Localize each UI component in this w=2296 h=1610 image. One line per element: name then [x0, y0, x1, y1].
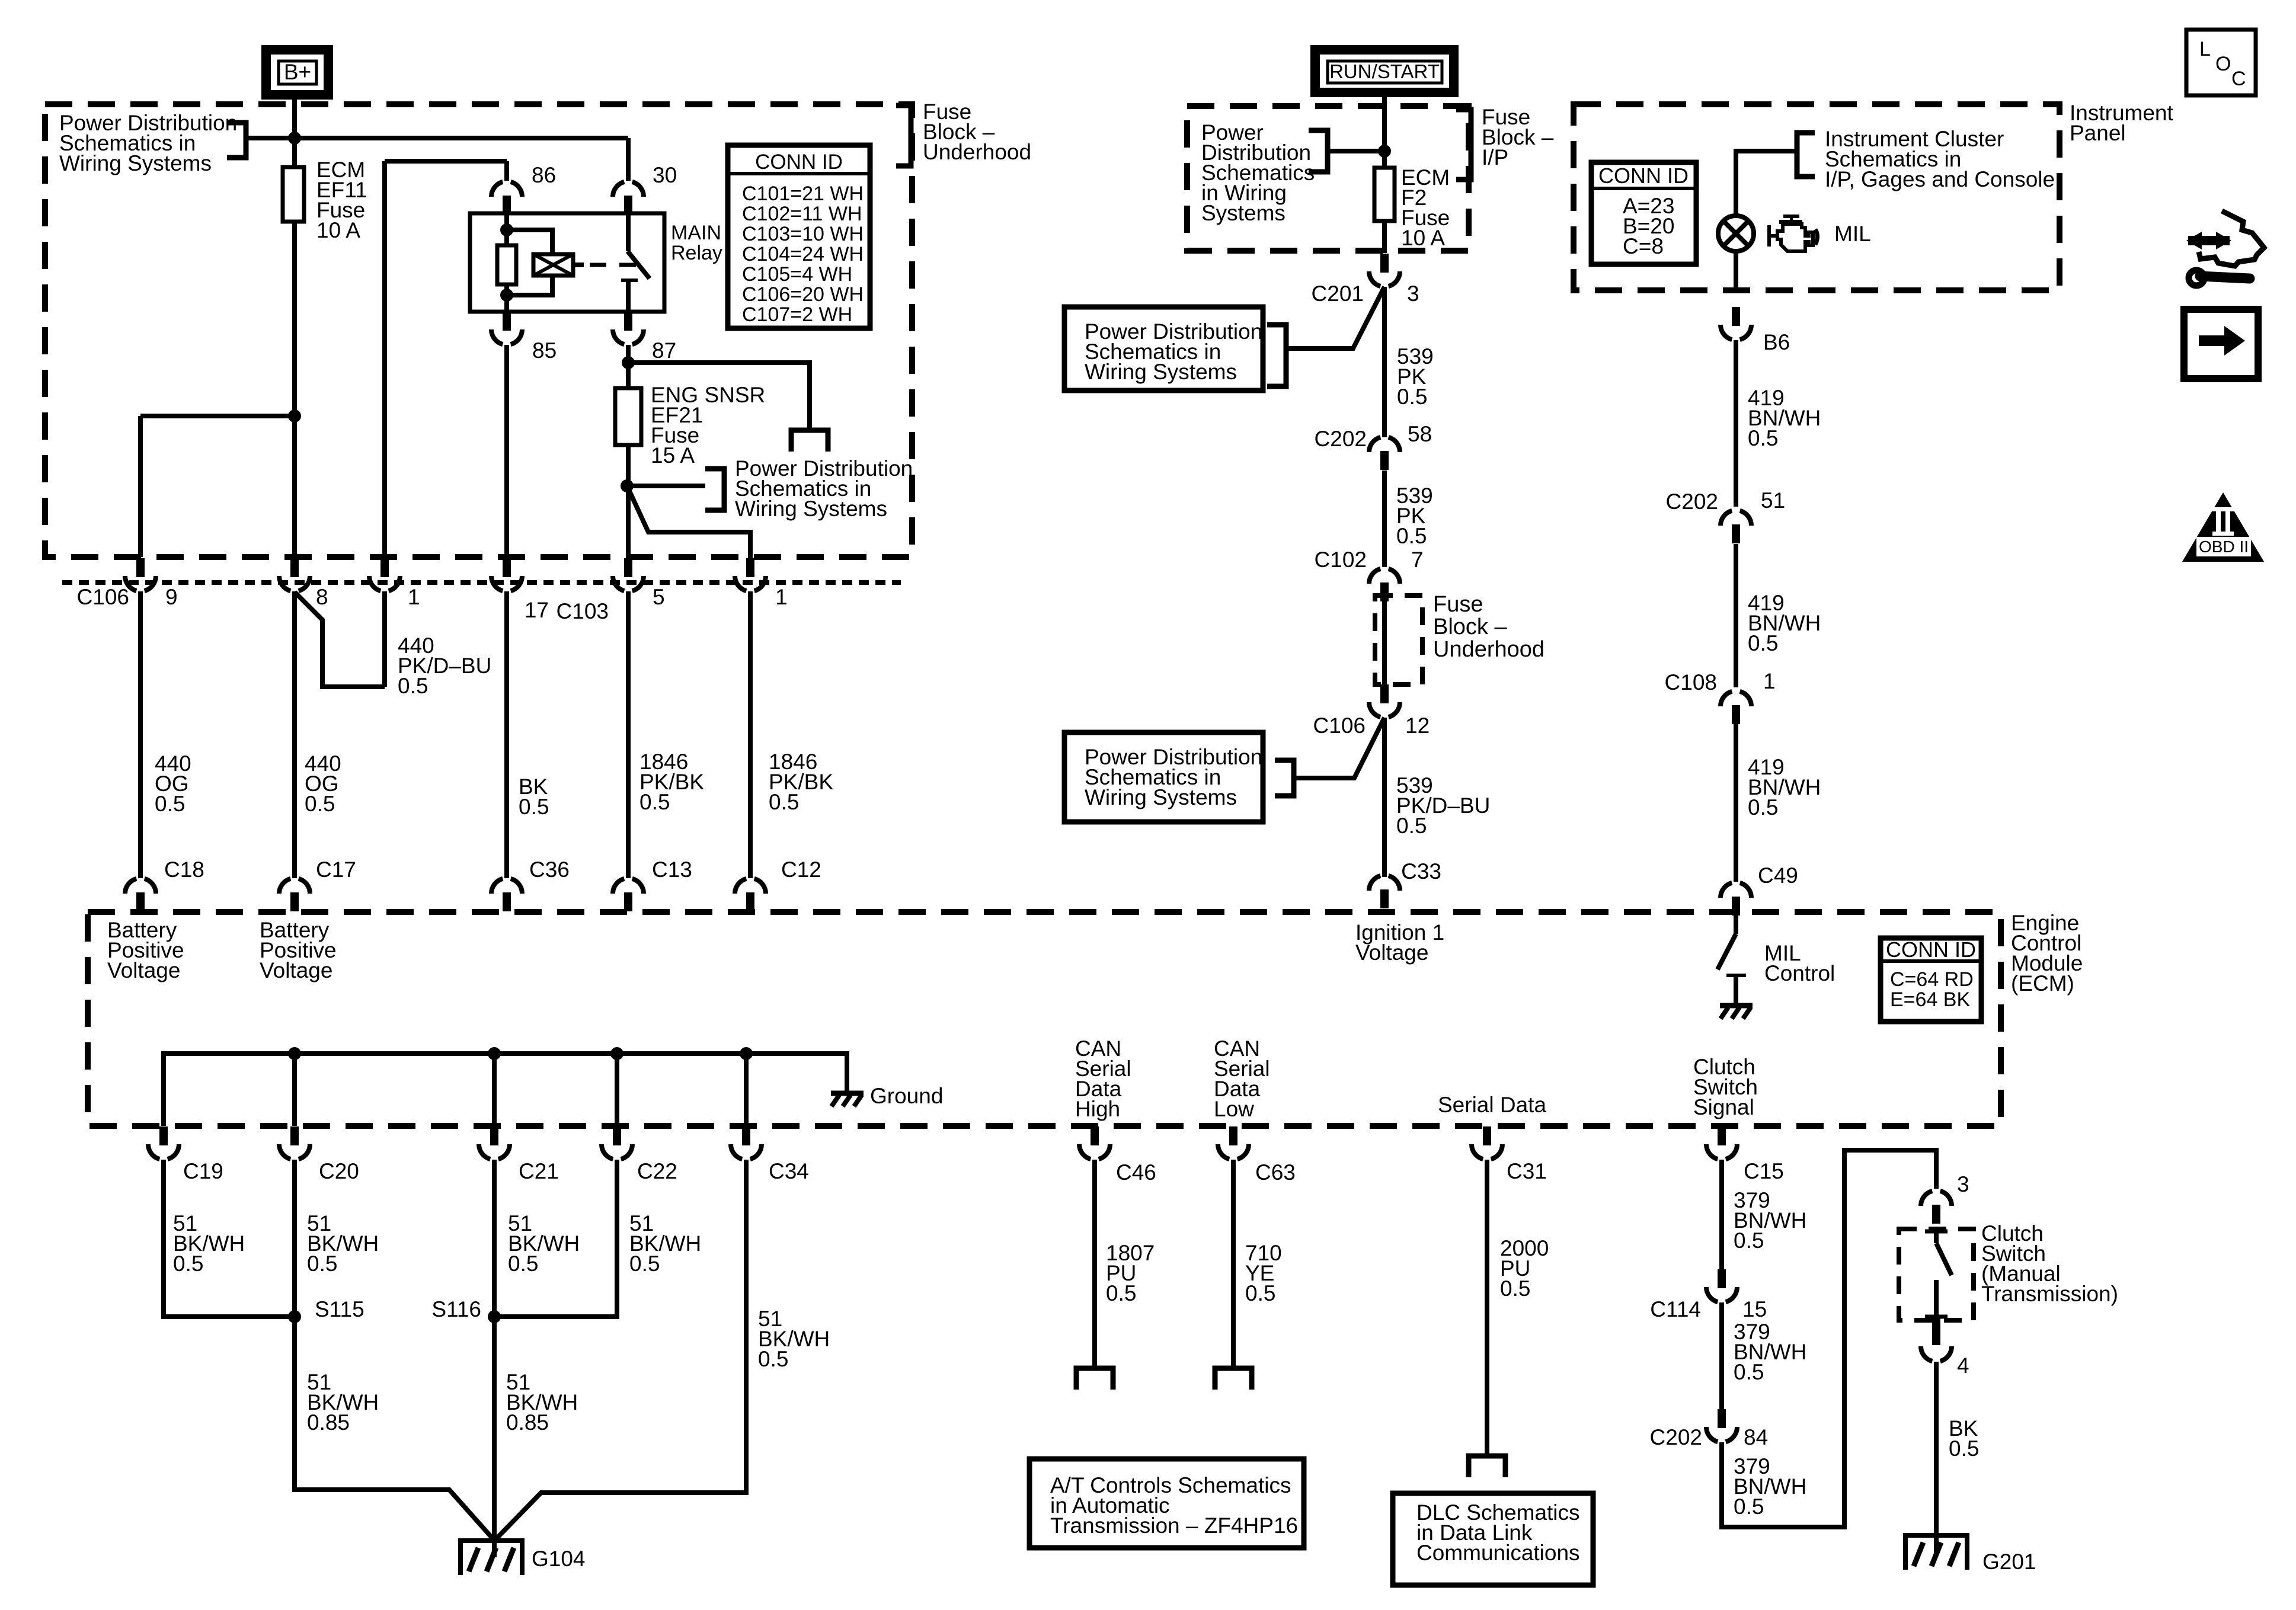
svg-text:Wiring Systems: Wiring Systems: [59, 151, 212, 175]
svg-text:87: 87: [652, 338, 676, 363]
svg-text:CONN ID: CONN ID: [755, 151, 843, 174]
svg-text:C103: C103: [557, 599, 609, 623]
svg-text:58: 58: [1408, 422, 1432, 446]
svg-text:0.5: 0.5: [1106, 1281, 1136, 1305]
svg-text:C20: C20: [319, 1159, 359, 1183]
svg-text:MIL: MIL: [1834, 222, 1871, 246]
svg-text:Voltage: Voltage: [107, 958, 180, 982]
svg-text:RUN/START: RUN/START: [1329, 60, 1440, 82]
svg-text:C202: C202: [1650, 1425, 1702, 1449]
svg-text:C46: C46: [1116, 1160, 1156, 1185]
svg-text:L: L: [2199, 38, 2211, 60]
svg-text:Signal: Signal: [1693, 1095, 1754, 1119]
svg-text:Ground: Ground: [870, 1084, 943, 1108]
svg-text:0.85: 0.85: [307, 1410, 350, 1435]
svg-text:C106: C106: [1313, 713, 1366, 738]
svg-text:0.5: 0.5: [769, 790, 799, 814]
svg-text:0.5: 0.5: [1748, 631, 1778, 655]
svg-text:0.5: 0.5: [305, 792, 335, 816]
svg-text:84: 84: [1744, 1425, 1768, 1449]
svg-text:1: 1: [408, 585, 420, 609]
svg-text:0.85: 0.85: [506, 1410, 549, 1435]
svg-text:Wiring Systems: Wiring Systems: [735, 497, 887, 521]
svg-text:0.5: 0.5: [639, 790, 670, 814]
svg-text:C31: C31: [1507, 1159, 1547, 1183]
svg-text:C107=2 WH: C107=2 WH: [742, 303, 852, 326]
svg-text:C202: C202: [1315, 427, 1367, 451]
svg-text:8: 8: [316, 585, 328, 609]
svg-text:C202: C202: [1666, 489, 1718, 514]
svg-text:C36: C36: [529, 857, 570, 882]
svg-text:10 A: 10 A: [1401, 226, 1445, 250]
svg-text:Relay: Relay: [671, 242, 722, 264]
svg-text:C=8: C=8: [1623, 234, 1664, 258]
svg-text:S116: S116: [431, 1297, 481, 1321]
svg-text:C49: C49: [1758, 863, 1798, 888]
svg-text:0.5: 0.5: [1748, 795, 1778, 820]
svg-text:I/P, Gages and Console: I/P, Gages and Console: [1825, 167, 2055, 191]
svg-text:C106: C106: [77, 585, 129, 609]
svg-text:C33: C33: [1401, 859, 1441, 884]
svg-text:B+: B+: [284, 60, 311, 84]
svg-text:C34: C34: [769, 1159, 809, 1183]
svg-text:0.5: 0.5: [1396, 524, 1427, 548]
svg-text:C106=20 WH: C106=20 WH: [742, 283, 864, 306]
svg-text:I/P: I/P: [1482, 145, 1508, 169]
svg-text:OBD II: OBD II: [2199, 537, 2249, 556]
svg-text:0.5: 0.5: [1734, 1494, 1764, 1519]
svg-text:Systems: Systems: [1201, 201, 1285, 225]
svg-text:85: 85: [532, 338, 557, 363]
svg-text:C21: C21: [519, 1159, 559, 1183]
svg-text:Voltage: Voltage: [1355, 940, 1428, 965]
svg-text:0.5: 0.5: [629, 1251, 660, 1276]
svg-text:1: 1: [775, 585, 788, 609]
svg-text:C18: C18: [164, 857, 204, 882]
svg-text:0.5: 0.5: [758, 1347, 788, 1371]
svg-text:0.5: 0.5: [1500, 1276, 1530, 1301]
svg-text:0.5: 0.5: [1734, 1360, 1764, 1384]
svg-text:C: C: [2231, 68, 2246, 90]
svg-text:5: 5: [653, 585, 665, 609]
svg-text:C105=4 WH: C105=4 WH: [742, 263, 852, 286]
svg-text:C103=10 WH: C103=10 WH: [742, 223, 864, 245]
svg-text:7: 7: [1411, 548, 1424, 572]
svg-text:G104: G104: [532, 1547, 586, 1571]
svg-text:C22: C22: [637, 1159, 677, 1183]
svg-text:Transmission – ZF4HP16: Transmission – ZF4HP16: [1050, 1513, 1298, 1538]
svg-text:Underhood: Underhood: [923, 140, 1031, 164]
svg-text:Block –: Block –: [1433, 614, 1507, 639]
svg-text:C12: C12: [781, 857, 821, 882]
svg-text:0.5: 0.5: [1397, 385, 1427, 409]
svg-text:0.5: 0.5: [1245, 1281, 1275, 1305]
svg-text:Underhood: Underhood: [1433, 637, 1544, 662]
svg-text:4: 4: [1957, 1353, 1969, 1378]
svg-text:0.5: 0.5: [155, 792, 185, 816]
svg-text:CONN ID: CONN ID: [1598, 164, 1689, 188]
svg-text:C63: C63: [1255, 1160, 1296, 1185]
svg-text:1: 1: [1763, 669, 1776, 693]
svg-text:S115: S115: [315, 1297, 364, 1321]
svg-text:G201: G201: [1982, 1550, 2036, 1574]
svg-text:12: 12: [1405, 713, 1430, 738]
svg-text:C114: C114: [1650, 1297, 1701, 1321]
svg-text:0.5: 0.5: [1396, 814, 1427, 838]
svg-text:Serial Data: Serial Data: [1438, 1093, 1546, 1117]
svg-text:9: 9: [165, 585, 178, 609]
svg-text:C102: C102: [1315, 548, 1367, 572]
svg-text:0.5: 0.5: [1949, 1436, 1979, 1461]
svg-text:Communications: Communications: [1416, 1541, 1580, 1565]
svg-text:51: 51: [1761, 488, 1785, 513]
svg-text:0.5: 0.5: [173, 1251, 203, 1276]
svg-text:15: 15: [1742, 1297, 1767, 1321]
svg-text:C15: C15: [1744, 1159, 1784, 1183]
svg-text:C102=11 WH: C102=11 WH: [742, 203, 862, 225]
svg-text:Control: Control: [1764, 961, 1835, 985]
svg-text:Wiring Systems: Wiring Systems: [1085, 785, 1237, 809]
svg-text:0.5: 0.5: [519, 795, 549, 819]
svg-text:10 A: 10 A: [316, 218, 360, 242]
svg-text:Voltage: Voltage: [260, 958, 332, 982]
svg-text:30: 30: [653, 163, 677, 187]
svg-text:CONN ID: CONN ID: [1886, 937, 1976, 962]
svg-text:B6: B6: [1763, 330, 1790, 354]
svg-text:0.5: 0.5: [508, 1251, 538, 1276]
svg-text:86: 86: [532, 163, 556, 187]
svg-text:High: High: [1075, 1097, 1120, 1121]
svg-text:C108: C108: [1665, 670, 1717, 694]
svg-text:17: 17: [525, 598, 549, 622]
svg-text:E=64 BK: E=64 BK: [1890, 988, 1970, 1011]
svg-text:0.5: 0.5: [1748, 426, 1778, 450]
svg-text:O: O: [2215, 53, 2231, 75]
svg-text:Wiring Systems: Wiring Systems: [1085, 360, 1237, 384]
svg-text:C=64 RD: C=64 RD: [1890, 968, 1974, 991]
svg-text:3: 3: [1957, 1172, 1969, 1196]
svg-text:C19: C19: [183, 1159, 223, 1183]
svg-text:C101=21 WH: C101=21 WH: [742, 183, 864, 205]
svg-text:3: 3: [1407, 281, 1419, 306]
svg-text:Transmission): Transmission): [1981, 1282, 2118, 1306]
svg-text:Low: Low: [1214, 1097, 1254, 1121]
svg-text:15 A: 15 A: [651, 443, 695, 468]
svg-text:0.5: 0.5: [1734, 1228, 1764, 1253]
svg-text:Panel: Panel: [2070, 121, 2126, 145]
svg-text:Fuse: Fuse: [1433, 592, 1483, 617]
svg-text:C17: C17: [316, 857, 356, 882]
svg-text:C104=24 WH: C104=24 WH: [742, 243, 864, 265]
svg-text:C13: C13: [652, 857, 692, 882]
svg-text:C201: C201: [1312, 281, 1364, 306]
svg-text:0.5: 0.5: [307, 1251, 337, 1276]
svg-text:(ECM): (ECM): [2011, 971, 2074, 996]
svg-text:0.5: 0.5: [398, 674, 428, 698]
svg-text:MAIN: MAIN: [671, 222, 721, 244]
